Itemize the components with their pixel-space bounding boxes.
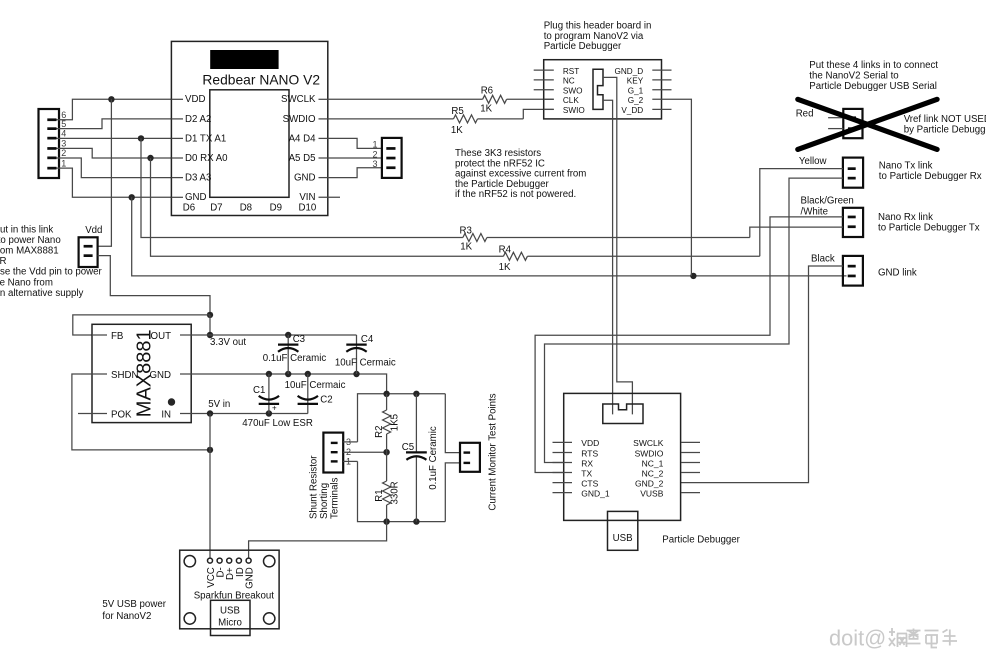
wire RX net vertical to R4 row (151, 158, 504, 256)
svg-text:D9: D9 (270, 203, 282, 214)
svg-text:GND_1: GND_1 (581, 488, 610, 498)
svg-text:0.1uF Ceramic: 0.1uF Ceramic (263, 353, 327, 364)
svg-text:GND: GND (149, 370, 171, 381)
svg-text:1K: 1K (451, 125, 463, 136)
connector J9 Nano Rx link (843, 208, 863, 237)
node C5 top junction (413, 391, 419, 397)
svg-text:to Particle Debugger Tx: to Particle Debugger Tx (878, 223, 980, 234)
note Plug this header board text (544, 20, 652, 52)
svg-text:to power Nano: to power Nano (0, 235, 61, 246)
svg-text:VUSB: VUSB (640, 488, 663, 498)
J6 left pin stubs (534, 70, 554, 109)
IC U3 Particle Debugger outline (564, 393, 681, 520)
watermark doit (829, 626, 886, 651)
svg-text:USB: USB (613, 533, 633, 544)
svg-text:SWCLK: SWCLK (633, 438, 664, 448)
node G_2 GND junction (690, 273, 696, 279)
svg-text:Nano Tx link: Nano Tx link (879, 160, 933, 171)
wire OUT loop down (209, 315, 211, 335)
cross-out X over Vref link (798, 99, 937, 149)
svg-text:USB: USB (220, 606, 240, 617)
wire debug link upper (603, 77, 632, 414)
svg-text:by Particle Debugger: by Particle Debugger (904, 125, 986, 136)
svg-text:to Particle Debugger Rx: to Particle Debugger Rx (879, 171, 982, 182)
U3 USB connector box (608, 511, 638, 550)
svg-text:R2: R2 (374, 426, 385, 438)
J6 right pin stubs (652, 70, 671, 109)
wire J4 pin1 (343, 460, 357, 462)
svg-text:C2: C2 (320, 395, 332, 406)
node GND junction (129, 194, 135, 200)
node IN vertical junction (207, 410, 213, 416)
svg-text:Plug this header board in: Plug this header board in (544, 20, 652, 31)
U2 pin1 dot marker (168, 398, 175, 405)
wire J9 top to debugger TX (535, 217, 843, 473)
svg-text:OR: OR (0, 256, 7, 267)
svg-text:R3: R3 (460, 226, 472, 237)
svg-text:5V in: 5V in (208, 399, 230, 410)
svg-text:VDD: VDD (581, 438, 599, 448)
svg-text:+: + (272, 404, 277, 413)
svg-text:Shunt Resistor: Shunt Resistor (309, 455, 320, 519)
svg-text:D7: D7 (210, 203, 222, 214)
wire R1 rail to Sparkfun GND (249, 522, 387, 559)
capacitor C5 (406, 394, 427, 522)
node C5 bottom junction (413, 518, 419, 524)
note Put these 4 links text (809, 60, 938, 92)
node OUT loop junction (207, 312, 213, 318)
label Black/Green /White (801, 196, 854, 218)
U3 left pin stubs (553, 442, 573, 492)
svg-text:Particle Debugger USB Serial: Particle Debugger USB Serial (809, 81, 937, 92)
U1 black label band (210, 50, 278, 69)
node C3 bottom junction (285, 371, 291, 377)
svg-text:Particle Debugger: Particle Debugger (544, 41, 622, 52)
note 5V USB power for NanoV2 (102, 599, 166, 622)
svg-text:use the Vdd pin to power: use the Vdd pin to power (0, 267, 103, 278)
USB Micro connector box (211, 600, 251, 635)
wire J1 pin2 to D3 (57, 158, 172, 178)
node C1 bottom junction (266, 410, 272, 416)
resistor R4 1K (503, 252, 527, 260)
svg-text:Shorting: Shorting (319, 483, 330, 519)
svg-text:Red: Red (796, 109, 814, 120)
svg-text:1: 1 (61, 158, 66, 168)
svg-text:A4 D4: A4 D4 (289, 133, 317, 144)
node C3 top junction (285, 332, 291, 338)
node VDD junction (108, 96, 114, 102)
wire J8 bottom to debugger RX (545, 178, 843, 462)
svg-text:the NanoV2 Serial to: the NanoV2 Serial to (809, 70, 898, 81)
svg-text:RTS: RTS (581, 448, 598, 458)
resistor R6 1K (483, 95, 507, 103)
wire J9 bottom to TX net R3 (750, 227, 843, 237)
IC U2 MAX8881 (92, 324, 191, 422)
note Nano Rx link text (878, 212, 980, 234)
svg-text:D6: D6 (183, 203, 195, 214)
wire IN 5V rail (191, 413, 308, 415)
svg-text:GND: GND (245, 567, 256, 589)
svg-text:GND: GND (294, 173, 316, 184)
svg-text:SWIO: SWIO (563, 106, 585, 115)
wire shunt top rail (358, 394, 446, 442)
svg-text:FB: FB (111, 331, 123, 342)
capacitor C2 (298, 374, 318, 414)
resistor R2 1K5 (383, 394, 391, 452)
capacitor C4 (346, 335, 366, 374)
wire J1 pin4 to D1 TX (57, 137, 172, 139)
svg-text:GND_D: GND_D (615, 67, 644, 76)
svg-text:NC: NC (563, 77, 575, 86)
Sparkfun mounting holes (184, 556, 275, 625)
wire GND mid rail (191, 374, 386, 394)
wire G_2 to GND net (672, 99, 692, 276)
svg-text:0.1uF Ceramic: 0.1uF Ceramic (428, 426, 439, 490)
svg-text:Micro: Micro (218, 618, 242, 629)
svg-text:1K: 1K (480, 104, 492, 115)
U1 right pin stubs (319, 99, 341, 197)
svg-text:Black: Black (811, 254, 835, 265)
svg-text:3.3V out: 3.3V out (210, 337, 246, 348)
wire R4 right to J8 (527, 255, 759, 257)
wire J4 pin3 (343, 441, 357, 443)
svg-text:CLK: CLK (563, 96, 579, 105)
svg-text:GND link: GND link (878, 268, 917, 279)
svg-text:if the nRF52 is not powered.: if the nRF52 is not powered. (455, 189, 576, 200)
svg-text:Particle Debugger: Particle Debugger (662, 535, 740, 546)
wire R3 right to J9 (487, 237, 750, 239)
wire Vdd net vertical (98, 99, 112, 246)
svg-text:D0 RX A0: D0 RX A0 (185, 153, 228, 164)
connector J7 Vref link (843, 109, 862, 138)
svg-text:4: 4 (61, 128, 66, 138)
svg-text:TX: TX (581, 468, 592, 478)
board Sparkfun breakout outline (180, 550, 279, 629)
svg-text:10uF Cermaic: 10uF Cermaic (285, 380, 346, 391)
svg-text:from MAX8881: from MAX8881 (0, 246, 59, 257)
wire OUT 3.3V rail (191, 334, 356, 336)
svg-text:Terminals: Terminals (330, 477, 341, 519)
svg-text:Current Monitor Test Points: Current Monitor Test Points (488, 393, 499, 510)
svg-text:V_DD: V_DD (621, 106, 643, 115)
node D0 RX junction (147, 155, 153, 161)
note Vref link NOT USED (904, 114, 986, 136)
wire J7 bottom stub (828, 128, 843, 130)
capacitor C3 (278, 335, 298, 374)
svg-text:CTS: CTS (581, 478, 598, 488)
svg-text:C1: C1 (253, 385, 265, 396)
wire J4 pin2 to R1 R2 mid (343, 451, 386, 453)
wire J1 pin5 to D2 (57, 119, 172, 129)
wire shunt bottom rail (358, 461, 446, 521)
svg-text:C3: C3 (293, 334, 305, 345)
wire 5V to Sparkfun VCC (209, 414, 211, 559)
note These 3K3 resistors text (455, 148, 586, 200)
svg-text:470uF Low ESR: 470uF Low ESR (242, 418, 313, 429)
wire A4 D4 to J3 pin1 (328, 138, 382, 148)
connector J2 Vdd link 2-pin (79, 237, 98, 267)
wire J10 top to debugger GND_2 (681, 266, 843, 483)
node R2 top junction (383, 391, 389, 397)
svg-text:SWO: SWO (563, 87, 583, 96)
svg-text:D10: D10 (299, 203, 317, 214)
svg-text:Vref link NOT USED: Vref link NOT USED (904, 114, 986, 125)
wire TX net vertical to R3 row (141, 138, 463, 237)
U2 pin stubs (92, 335, 191, 414)
svg-text:the Nano from: the Nano from (0, 277, 53, 288)
node R1 R2 mid junction (383, 449, 389, 455)
svg-text:C5: C5 (402, 442, 414, 453)
wire J1 pin3 to D0 RX (57, 148, 172, 158)
svg-text:5V USB power: 5V USB power (102, 599, 166, 610)
svg-text:POK: POK (111, 409, 132, 420)
svg-text:R4: R4 (499, 244, 512, 255)
svg-text:SWCLK: SWCLK (281, 94, 316, 105)
node SHDN 5V junction (207, 447, 213, 453)
svg-text:G_2: G_2 (628, 96, 644, 105)
U1 left pin stubs (171, 99, 183, 197)
wire SWDIO to SWIO with R5 (328, 109, 554, 119)
note Put in this link text block (0, 224, 103, 299)
Sparkfun pin pads VCC D- D+ ID GND (208, 558, 252, 563)
node C4 bottom junction (353, 371, 359, 377)
resistor R1 330R (383, 452, 391, 521)
connector J8 Nano Tx link (843, 158, 863, 188)
svg-text:doit@: doit@ (829, 626, 886, 651)
U1 inner body box (210, 90, 289, 198)
label Shunt Resistor Shorting Terminals (309, 455, 341, 519)
svg-text:SWDIO: SWDIO (283, 114, 316, 125)
svg-text:IN: IN (161, 409, 171, 420)
svg-text:GND_2: GND_2 (635, 478, 664, 488)
svg-text:3: 3 (373, 159, 378, 169)
svg-text:RX: RX (581, 458, 593, 468)
svg-text:an alternative supply: an alternative supply (0, 288, 84, 299)
note Nano Tx link text (879, 160, 982, 182)
wire GND net vertical to GND-link row (132, 197, 847, 276)
svg-text:1K: 1K (460, 242, 472, 253)
svg-text:D3 A3: D3 A3 (185, 173, 211, 184)
svg-text:OUT: OUT (151, 331, 172, 342)
svg-text:SHDN: SHDN (111, 370, 138, 381)
svg-text:Vdd: Vdd (85, 225, 102, 236)
svg-text:NC_1: NC_1 (642, 458, 664, 468)
svg-text:1: 1 (373, 139, 378, 149)
node C1 top junction (266, 371, 272, 377)
IC U1 Redbear NANO V2 outer box (171, 41, 327, 215)
svg-text:10uF Cermaic: 10uF Cermaic (335, 357, 396, 368)
node R1 bottom junction (383, 518, 389, 524)
U3 right pin stubs (681, 442, 700, 492)
wire FB loop (73, 315, 210, 335)
node C2 top junction (305, 371, 311, 377)
svg-text:A5 D5: A5 D5 (289, 153, 316, 164)
svg-text:2: 2 (373, 149, 378, 159)
connector J10 GND link (843, 256, 863, 286)
svg-text:R1: R1 (374, 489, 385, 501)
wire test point top (445, 394, 460, 453)
wire debug link lower (603, 100, 613, 414)
connector J4 shunt 3-pin (323, 433, 343, 473)
wire SWCLK to CLK with R6 (328, 98, 554, 100)
svg-text:1K5: 1K5 (390, 414, 401, 431)
U3 top connector with key notch (603, 404, 643, 424)
svg-text:Black/Green: Black/Green (801, 196, 854, 207)
svg-text:to program NanoV2 via: to program NanoV2 via (544, 31, 644, 42)
svg-text:G_1: G_1 (628, 87, 644, 96)
connector J5 current monitor test points (460, 443, 480, 472)
svg-text:Put in this link: Put in this link (0, 224, 53, 235)
svg-text:D2 A2: D2 A2 (185, 114, 211, 125)
svg-text:Redbear NANO V2: Redbear NANO V2 (202, 72, 320, 87)
svg-text:Nano Rx link: Nano Rx link (878, 212, 933, 223)
svg-text:D8: D8 (240, 203, 252, 214)
watermark CJK glyphs (889, 628, 957, 648)
resistor R3 1K (463, 234, 487, 242)
svg-text:for NanoV2: for NanoV2 (102, 611, 151, 622)
svg-text:330R: 330R (390, 481, 401, 504)
svg-text:NC_2: NC_2 (642, 468, 664, 478)
wire J2 bottom pin to MAX8881 OUT (98, 256, 210, 315)
capacitor C1 (259, 374, 279, 414)
svg-text:VDD: VDD (185, 94, 205, 105)
connector J1 6-pin header (39, 109, 60, 178)
resistor R5 1K (454, 115, 478, 123)
node OUT row junction (207, 332, 213, 338)
svg-text:SWDIO: SWDIO (635, 448, 664, 458)
wire J7 top stub (828, 117, 843, 119)
svg-text:Yellow: Yellow (799, 156, 828, 167)
wire A5 D5 to J3 pin2 (328, 157, 382, 159)
svg-text:RST: RST (563, 67, 579, 76)
wire test point bottom (445, 463, 460, 522)
wire J8 top to RX net (760, 169, 843, 257)
svg-text:2: 2 (61, 148, 66, 158)
svg-text:R6: R6 (481, 85, 493, 96)
svg-text:R5: R5 (451, 106, 463, 117)
node D1 TX junction (138, 135, 144, 141)
wire J1 pin1 to GND (57, 168, 172, 197)
wire SHDN to 5V net (72, 374, 210, 450)
U1 bottom labels D6 D7 D8 D9 D10 (183, 203, 317, 214)
svg-text:D1 TX A1: D1 TX A1 (185, 133, 226, 144)
svg-text:Put these 4 links in to connec: Put these 4 links in to connect (809, 60, 938, 71)
svg-text:/White: /White (801, 206, 828, 217)
wire GND to J3 pin3 (328, 168, 382, 178)
svg-text:1K: 1K (499, 262, 511, 273)
wire J1 pin6 to VDD (57, 99, 172, 119)
board J6 header board outline (544, 60, 662, 119)
connector J3 3-pin (382, 138, 402, 178)
wire POK stub (78, 413, 92, 415)
J6 mating key symbol (593, 69, 603, 109)
svg-text:C4: C4 (361, 334, 374, 345)
svg-text:KEY: KEY (627, 77, 644, 86)
